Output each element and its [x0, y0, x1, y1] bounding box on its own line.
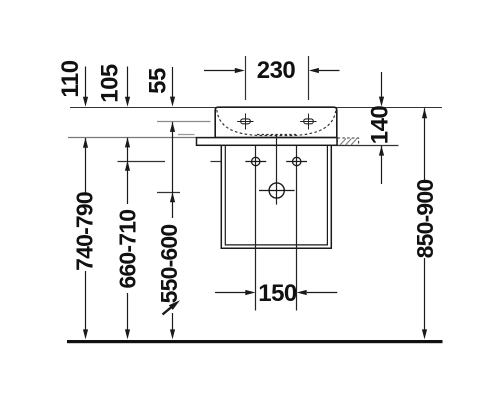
- svg-text:850-900: 850-900: [412, 180, 438, 259]
- bowl-bottom level gray tick: [178, 134, 195, 136]
- dimension 105 line: [125, 67, 130, 205]
- pedestal outer outline: [221, 145, 331, 248]
- bowl interior hidden curve (dashed): [217, 110, 336, 136]
- dimension 55 line: [170, 67, 175, 218]
- dimension 550-600 lower line: [170, 313, 175, 339]
- drain centerline: [276, 135, 278, 205]
- drain level extension line: [157, 192, 180, 194]
- mounting ledge: [197, 138, 338, 146]
- svg-text:150: 150: [258, 280, 297, 307]
- dimension 150: [215, 290, 337, 295]
- svg-text:140: 140: [367, 106, 394, 145]
- dimension 230 extension line left: [245, 56, 247, 100]
- fixing-hole level extension line stub across pedestal wall: [211, 161, 223, 163]
- fixing hole left: [245, 157, 266, 165]
- tap hole left crosshair: [237, 114, 253, 130]
- dimension 660-710 lower line: [125, 293, 130, 339]
- fixing-hole level extension line: [118, 161, 166, 163]
- floor line: [67, 340, 443, 343]
- supply centerline right: [296, 146, 298, 311]
- dimension 230 extension line right: [308, 56, 310, 100]
- pedestal inner wall line: [225, 145, 327, 245]
- dimension 850-900 line: [422, 108, 427, 339]
- drain hole: [259, 183, 295, 198]
- ledge-top level extension line (gray): [68, 137, 197, 139]
- hatched optional block right of basin (dashed): [338, 138, 359, 145]
- dimension 550-600 diagonal adjustability arrow: [163, 300, 181, 314]
- svg-text:55: 55: [145, 68, 172, 94]
- svg-text:660-710: 660-710: [115, 210, 141, 289]
- svg-text:230: 230: [257, 57, 296, 84]
- ledge bottom extension line to the right: [337, 145, 399, 147]
- svg-text:105: 105: [96, 64, 123, 103]
- dimension 140 line: [379, 72, 384, 184]
- svg-text:110: 110: [57, 60, 84, 97]
- supply centerline left: [255, 146, 257, 311]
- tap-deck 55 level extension line (gray): [157, 121, 211, 123]
- fixing hole right: [286, 157, 307, 165]
- dimension 740-790 lower line: [83, 271, 88, 339]
- rim level extension line: [70, 107, 442, 109]
- tap hole right crosshair: [300, 114, 316, 130]
- dimension 230: [204, 68, 340, 73]
- basin body outline: [215, 107, 337, 137]
- svg-text:740-790: 740-790: [71, 192, 97, 271]
- dimension 110 line: [83, 67, 88, 196]
- svg-text:550-600: 550-600: [156, 225, 182, 304]
- drain recess hidden lines (dashed): [257, 134, 296, 136]
